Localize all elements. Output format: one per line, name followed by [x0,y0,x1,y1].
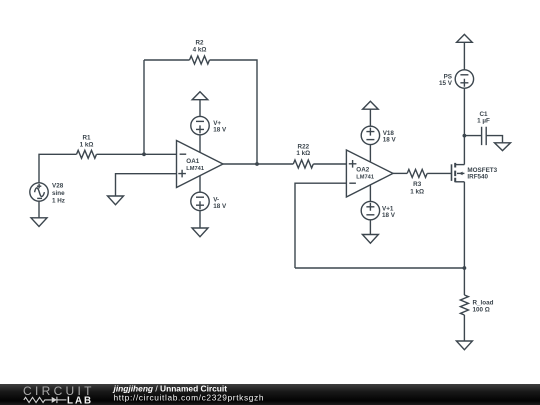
svg-text:R1: R1 [82,135,91,142]
svg-text:IRF540: IRF540 [467,174,488,181]
svg-text:18 V: 18 V [213,203,227,210]
wire arrow to V18 [369,109,371,126]
wire R2 to OA1 output node [210,60,258,164]
wire node to PS [463,88,465,135]
wire V+ to OA1 [199,135,201,152]
voltage source PS [455,70,473,88]
svg-text:4 kΩ: 4 kΩ [193,47,207,54]
wire OA1 output to R22 [223,163,293,165]
voltage source V+1 [361,201,379,219]
resistor R3 [407,169,427,177]
svg-text:R2: R2 [195,40,204,47]
svg-text:OA2: OA2 [356,167,369,174]
ground for V28 [31,218,47,227]
ground for R_load [456,341,472,350]
wire V28 to ground [38,201,40,218]
power arrow above V18 [363,101,379,109]
junction node feedback-input [142,152,146,156]
wire V28 to R1 [39,154,77,183]
op-amp OA2 [346,150,393,197]
wire MOSFET drain to node [463,136,465,165]
wire PS to arrow [463,42,465,70]
svg-text:1 Hz: 1 Hz [52,197,65,204]
wire V- to ground [199,211,201,228]
wire OA2 inverting input feedback left [295,183,346,268]
power arrow above V+ [192,92,208,100]
svg-text:R_load: R_load [473,299,494,306]
wire MOSFET source to node [463,182,465,268]
ground for OA1 input [108,196,124,205]
ground for V+1 [362,235,378,244]
wire OA2 output to R3 [393,172,407,174]
resistor R22 [293,160,313,168]
svg-text:100 Ω: 100 Ω [473,307,490,314]
svg-text:V28: V28 [52,182,64,189]
wire OA1 to V- [199,176,201,193]
wire arrow to V+ [199,100,201,117]
svg-text:18 V: 18 V [383,137,397,144]
svg-text:18 V: 18 V [213,127,227,134]
CircuitLab logo icon [24,397,67,403]
svg-text:OA1: OA1 [186,158,199,165]
capacitor C1 [482,127,487,145]
wire V+1 to ground [369,220,371,235]
svg-text:LM741: LM741 [356,175,374,181]
voltage source V- [191,192,209,210]
wire C1 to ground [486,136,502,143]
svg-text:15 V: 15 V [439,80,453,87]
ground for V- [192,228,208,237]
svg-text:1 kΩ: 1 kΩ [410,188,424,195]
resistor R1 [77,150,97,158]
svg-text:R3: R3 [413,181,422,188]
voltage source V28 [30,183,48,201]
svg-text:1 kΩ: 1 kΩ [296,150,310,157]
transistor MOSFET3 [452,163,465,182]
junction node drain-C1 [463,134,467,138]
footer bar [0,384,540,405]
wire V18 to OA2 [369,145,371,162]
wire R1 to OA1 inverting input [97,153,177,155]
wire OA2 to V+1 [369,185,371,202]
svg-text:LM741: LM741 [186,166,204,172]
junction node source-load [463,266,467,270]
wire node to R_load [463,268,465,295]
voltage source V+ [191,116,209,134]
wire feedback bottom [295,267,464,269]
wire OA1 noninverting input to ground [116,174,177,196]
op-amp OA1 [177,141,224,188]
resistor R2 [190,56,210,64]
svg-text:http://circuitlab.com/c2329prt: http://circuitlab.com/c2329prtksgzh [114,393,265,403]
svg-text:1 µF: 1 µF [477,118,490,125]
wire R_load to ground [463,315,465,341]
voltage source V18 [361,126,379,144]
svg-text:18 V: 18 V [382,212,396,219]
ground for C1 [495,143,511,151]
wire feedback left vertical [143,60,145,154]
power arrow above PS [457,34,473,42]
wire node to C1 [464,135,481,137]
wire feedback top left [144,59,190,61]
wire R22 to OA2 noninverting input [313,163,346,165]
junction node OA1 output [255,162,259,166]
resistor R_load [460,295,468,315]
svg-text:sine: sine [52,190,65,197]
svg-text:LAB: LAB [67,395,93,405]
svg-text:1 kΩ: 1 kΩ [80,142,94,149]
wire R3 to MOSFET gate [427,172,451,174]
